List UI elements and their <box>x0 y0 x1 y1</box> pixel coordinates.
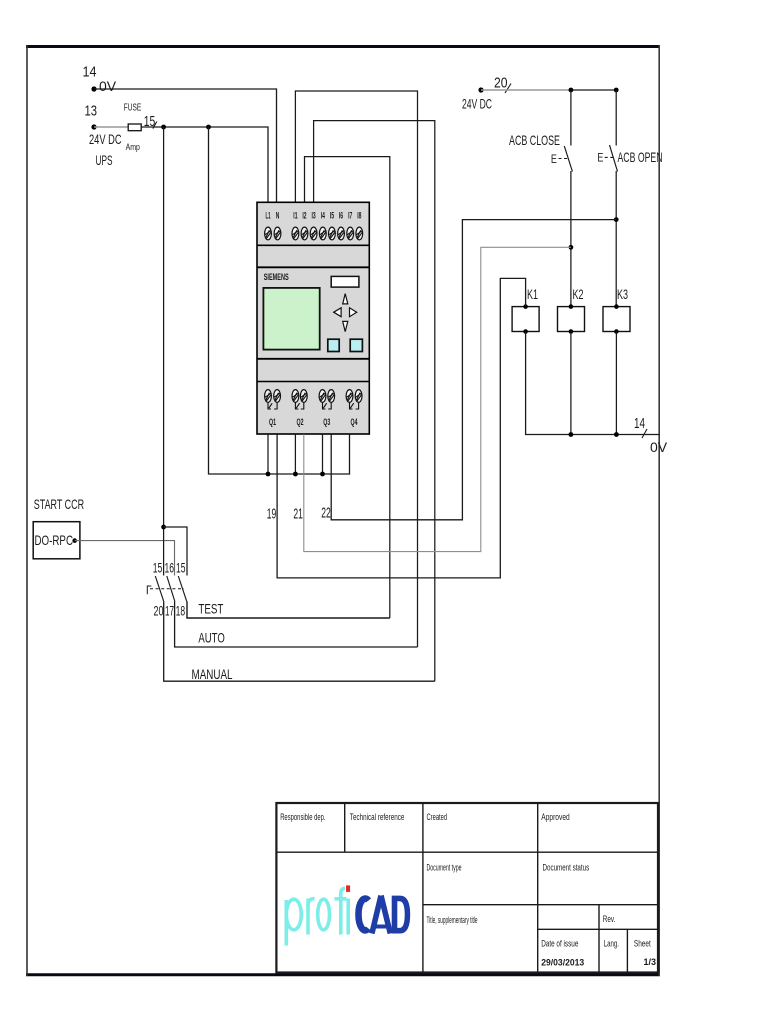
svg-text:24V DC: 24V DC <box>89 131 122 147</box>
svg-text:K3: K3 <box>617 286 628 302</box>
wire 22 Q3 to K3 <box>321 220 616 522</box>
svg-text:Date of issue: Date of issue <box>541 938 578 948</box>
node 14 (0V left terminal) <box>83 64 117 95</box>
svg-text:AUTO: AUTO <box>198 629 224 645</box>
wire 21 Q2 to K2 <box>293 247 571 551</box>
PLC card slot <box>331 276 359 287</box>
svg-text:Sheet: Sheet <box>634 938 651 948</box>
svg-text:16: 16 <box>165 560 175 576</box>
wire 0V to N terminal <box>94 89 277 203</box>
svg-text:0V: 0V <box>99 78 117 94</box>
svg-text:22: 22 <box>321 505 331 522</box>
node 14 (0V right) <box>634 415 668 455</box>
wire 24V DC to Q commons <box>209 127 350 476</box>
PLC module U1 (Siemens LOGO) <box>257 202 369 434</box>
svg-text:20: 20 <box>494 75 508 92</box>
svg-text:Q1: Q1 <box>269 417 276 427</box>
svg-text:Q2: Q2 <box>297 417 304 427</box>
svg-text:ACB OPEN: ACB OPEN <box>618 149 663 165</box>
svg-text:Lang.: Lang. <box>604 938 619 948</box>
wire K2 to 0V rail <box>570 332 572 435</box>
svg-text:SIEMENS: SIEMENS <box>264 271 289 282</box>
svg-text:E: E <box>551 152 557 166</box>
svg-text:Title, supplementary title: Title, supplementary title <box>427 915 478 925</box>
svg-text:K1: K1 <box>527 286 538 302</box>
svg-text:E: E <box>597 151 603 165</box>
svg-text:18: 18 <box>176 603 186 619</box>
svg-text:I6: I6 <box>339 211 343 222</box>
title block texts <box>280 812 656 968</box>
svg-text:I7: I7 <box>348 211 352 222</box>
switch ACB CLOSE <box>509 90 572 307</box>
node junction ACB CLOSE / wire 21 <box>569 245 574 250</box>
svg-text:TEST: TEST <box>198 601 223 617</box>
svg-text:MANUAL: MANUAL <box>192 666 233 682</box>
svg-text:I2: I2 <box>302 211 306 222</box>
title block <box>276 803 658 973</box>
wire I3 to MANUAL <box>314 121 435 682</box>
svg-text:19: 19 <box>267 506 277 523</box>
svg-text:Document type: Document type <box>427 863 462 873</box>
svg-text:21: 21 <box>293 506 303 523</box>
drawing frame <box>26 45 660 976</box>
svg-text:Amp: Amp <box>126 142 140 152</box>
wire TEST <box>187 601 390 618</box>
svg-text:14: 14 <box>83 64 97 81</box>
svg-text:Rev.: Rev. <box>603 914 616 924</box>
wire I1 to AUTO <box>295 91 417 647</box>
PLC terminal labels L1 N I1-I8 <box>266 211 362 222</box>
switch ACB OPEN <box>597 90 662 307</box>
svg-text:Q4: Q4 <box>351 417 358 427</box>
svg-text:UPS: UPS <box>96 152 113 168</box>
svg-text:29/03/2013: 29/03/2013 <box>541 957 584 968</box>
wire 15 (24V DC rail to L1) <box>141 113 268 203</box>
svg-text:24V DC: 24V DC <box>462 96 492 112</box>
svg-text:START CCR: START CCR <box>34 496 84 512</box>
wire I2 to TEST <box>305 157 390 618</box>
selector terminal labels 15 16 15 <box>153 560 186 576</box>
svg-text:20: 20 <box>154 603 164 619</box>
node junction ACB OPEN / wire 22 <box>614 217 619 222</box>
svg-text:ACB CLOSE: ACB CLOSE <box>509 132 560 148</box>
node 13 (24V DC left terminal) <box>85 103 122 168</box>
svg-text:K2: K2 <box>573 286 584 302</box>
svg-text:FUSE: FUSE <box>124 103 142 114</box>
PLC output screw terminals <box>265 390 362 409</box>
svg-text:Created: Created <box>427 812 448 822</box>
svg-text:I4: I4 <box>321 211 326 222</box>
svg-text:13: 13 <box>85 103 98 120</box>
wire 19 Q1 to K1 <box>267 278 526 578</box>
svg-text:15: 15 <box>176 560 186 576</box>
PLC LCD screen <box>263 288 319 350</box>
svg-text:I3: I3 <box>312 211 316 222</box>
svg-text:I5: I5 <box>330 211 335 222</box>
svg-text:1/3: 1/3 <box>644 957 657 968</box>
wire 15 to selector poles <box>161 127 187 576</box>
PLC function buttons <box>328 339 339 351</box>
PLC input screw terminals <box>265 227 363 240</box>
svg-text:Approved: Approved <box>541 812 569 822</box>
wire AUTO <box>175 601 418 647</box>
block DO-RPC <box>33 522 80 559</box>
svg-text:L1: L1 <box>266 211 271 222</box>
selector terminal labels 20 17 18 <box>154 603 186 619</box>
PLC output labels Q1-Q4 <box>269 417 358 427</box>
fuse FUSE Amp <box>94 103 141 153</box>
wire K3 to 0V rail <box>615 332 617 435</box>
svg-text:15: 15 <box>153 560 163 576</box>
wire K1 to 0V rail <box>526 332 660 435</box>
svg-text:I1: I1 <box>293 211 298 222</box>
svg-text:0V: 0V <box>650 439 668 455</box>
wire DO-RPC to selector pole 16 <box>75 541 175 576</box>
relay coil K3 <box>603 286 630 334</box>
wire MANUAL <box>164 601 435 682</box>
svg-text:N: N <box>276 211 280 222</box>
svg-text:Document status: Document status <box>543 863 590 873</box>
relay coil K1 <box>512 286 539 334</box>
svg-text:Responsible dep.: Responsible dep. <box>280 812 325 822</box>
svg-text:Technical reference: Technical reference <box>350 812 405 822</box>
wire 20 rail <box>481 88 619 93</box>
svg-text:17: 17 <box>165 603 174 619</box>
selector switch S1 (3-pole) <box>147 576 186 601</box>
node 20 (24V DC right terminal) <box>462 75 511 112</box>
svg-text:Q3: Q3 <box>323 417 330 427</box>
svg-text:DO-RPC: DO-RPC <box>35 532 74 548</box>
relay coil K2 <box>558 286 585 334</box>
PLC cursor keys <box>334 294 357 332</box>
proficad logo <box>286 885 410 945</box>
svg-text:14: 14 <box>634 415 645 432</box>
svg-text:I8: I8 <box>357 211 362 222</box>
